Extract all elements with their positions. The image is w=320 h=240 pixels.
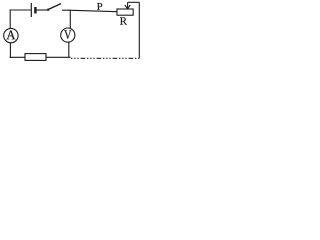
wire voltmeter branch lower <box>68 42 70 58</box>
wire slider to right rail <box>128 1 139 3</box>
voltmeter V body <box>61 28 75 42</box>
wire left rail upper <box>9 10 11 29</box>
wire junction to rheostat (top wire) <box>68 10 118 12</box>
wire bottom solid segment <box>10 56 71 58</box>
switch pivot node <box>47 9 49 11</box>
rheostat R body <box>117 9 133 15</box>
wire right rail vertical <box>138 2 140 58</box>
ammeter A body <box>4 28 18 42</box>
wire top-left horizontal segment <box>10 9 31 11</box>
resistor Rx body (bottom) <box>25 54 46 61</box>
wire switch to junction <box>62 9 69 11</box>
battery cell long plate <box>30 3 32 17</box>
wire bottom dotted segment <box>71 57 139 59</box>
ammeter A letter <box>6 30 15 39</box>
wire battery to switch <box>37 9 48 11</box>
rheostat slider arrowhead <box>125 5 130 9</box>
node P label <box>97 3 102 10</box>
rheostat slider stem <box>127 2 129 9</box>
wire left rail lower <box>9 43 11 58</box>
voltmeter V letter <box>64 30 71 39</box>
battery cell short thick plate <box>34 7 36 14</box>
switch blade (open) <box>48 4 61 10</box>
rheostat label R <box>120 17 127 24</box>
wire voltmeter branch upper <box>69 10 71 29</box>
